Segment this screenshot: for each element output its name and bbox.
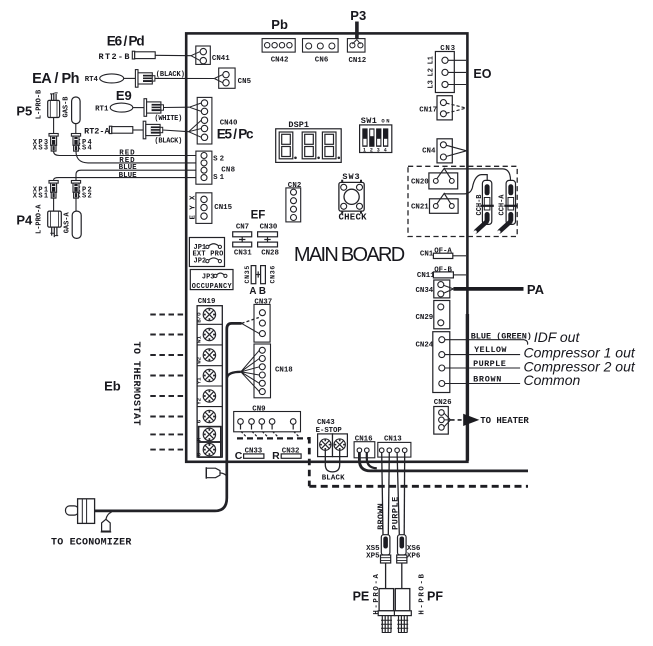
svg-text:PURPLE: PURPLE <box>473 359 506 369</box>
plug RT1 (WHITE) <box>144 99 182 123</box>
connector CN41 <box>191 46 230 64</box>
svg-text:XS3: XS3 <box>33 145 48 153</box>
main board outline <box>186 33 467 461</box>
wire RT2-A to plug <box>133 129 143 131</box>
wire trunk from CN37/CN18 down to economizer <box>95 318 259 511</box>
svg-text:P4: P4 <box>16 212 33 227</box>
svg-text:E9: E9 <box>116 88 132 103</box>
svg-text:CN11: CN11 <box>417 272 435 280</box>
pressure switch L-PRO-A <box>36 198 62 237</box>
svg-text:EA / Ph: EA / Ph <box>32 71 79 87</box>
svg-text:B/O: B/O <box>196 312 203 323</box>
svg-text:CN12: CN12 <box>349 57 367 65</box>
crankcase heater plug CCH-A <box>498 180 518 233</box>
pressure switch PE H-PRO-A <box>353 574 396 633</box>
svg-text:IDF out: IDF out <box>534 329 581 345</box>
plug XS6/XP6 <box>397 535 421 589</box>
wire RED 1 <box>54 149 197 157</box>
svg-text:C: C <box>235 450 243 462</box>
svg-text:CN29: CN29 <box>416 314 434 322</box>
svg-text:BLUE: BLUE <box>119 172 137 180</box>
jumper block JP3 OCCUPANCY <box>190 270 233 291</box>
svg-text:PA: PA <box>527 282 545 297</box>
svg-text:CN43: CN43 <box>317 419 335 427</box>
connector CN2 <box>286 182 301 222</box>
connector CN9 <box>234 405 301 432</box>
wire CN20 to CCH-A <box>444 168 510 180</box>
connector CN40 <box>189 97 238 144</box>
svg-text:PF: PF <box>427 589 443 603</box>
jumper R CN32 <box>272 448 301 463</box>
svg-text:CN6: CN6 <box>315 57 329 65</box>
wire RT4 to plug <box>124 77 136 79</box>
plug RT4 (BLACK) <box>135 70 185 88</box>
svg-text:CN4: CN4 <box>422 148 436 156</box>
svg-text:G: G <box>196 419 203 423</box>
pressure switch PF H-PRO-B <box>394 574 443 633</box>
wire RT2-B to CN41 <box>155 54 191 56</box>
svg-text:L-PRO-B: L-PRO-B <box>36 89 44 119</box>
dashed option box (crankcase heaters) <box>408 166 517 236</box>
wire PA thick <box>453 282 544 297</box>
svg-text:EF: EF <box>251 209 266 221</box>
plug XS5/XP5 <box>366 535 391 589</box>
svg-text:XP6: XP6 <box>407 553 421 561</box>
wires CN3 to board edge <box>448 60 466 84</box>
svg-text:BLACK: BLACK <box>322 474 345 482</box>
svg-text:CN35: CN35 <box>244 266 251 284</box>
svg-text:C: C <box>196 452 203 456</box>
svg-text:CN15: CN15 <box>214 204 232 212</box>
DIP switch SW1 <box>360 116 392 153</box>
label E9 <box>116 88 132 103</box>
spade terminal on trunk (board bottom) <box>206 467 227 479</box>
svg-text:CN28: CN28 <box>261 250 279 258</box>
svg-text:TO ECONOMIZER: TO ECONOMIZER <box>51 538 131 549</box>
crankcase heater plug CCH-B <box>474 180 494 233</box>
label E5 / Pc <box>217 127 254 142</box>
label Pb <box>271 17 288 32</box>
svg-text:CN20: CN20 <box>411 179 429 187</box>
wire P3 thick lead <box>355 22 359 41</box>
svg-text:L1: L1 <box>427 56 435 64</box>
wire Compressor 1 out YELLOW <box>445 345 636 361</box>
wire BLUE 2 <box>54 172 197 181</box>
label EF <box>251 209 266 221</box>
pressure switch L-PRO-B <box>36 89 60 134</box>
wire RT2-A plug to CN40 <box>163 130 189 132</box>
svg-text:A B: A B <box>249 286 266 297</box>
svg-text:BLUE (GREEN): BLUE (GREEN) <box>471 332 532 342</box>
svg-text:RT2-A: RT2-A <box>84 126 110 136</box>
thermistor RT4 <box>85 74 124 84</box>
connector CN42 <box>262 39 295 65</box>
push button SW3 CHECK <box>339 172 368 222</box>
dashed bus from CN9 to bottom right <box>237 437 528 486</box>
svg-text:EO: EO <box>473 67 491 81</box>
dashed wires to thermostat <box>150 315 186 450</box>
thermistor RT2-B <box>99 51 156 62</box>
svg-text:RT1: RT1 <box>95 105 109 113</box>
svg-text:RT2-B: RT2-B <box>99 52 130 62</box>
terminal block CN19 <box>197 298 222 457</box>
jumper CN30/CN28 <box>258 224 280 258</box>
connector CN13 <box>378 436 411 457</box>
svg-text:MAIN BOARD: MAIN BOARD <box>294 244 405 266</box>
plug XP3/XS3 <box>33 134 58 153</box>
svg-text:SW3: SW3 <box>342 172 359 182</box>
svg-text:W2: W2 <box>196 356 203 363</box>
wire RED 2 <box>76 151 197 165</box>
spade terminal on economizer wire <box>101 512 112 532</box>
svg-text:CN17: CN17 <box>419 107 437 115</box>
wire plug to CN5 <box>155 77 214 79</box>
svg-text:E6 / Pd: E6 / Pd <box>107 33 145 48</box>
label PURPLE vertical <box>391 497 401 530</box>
connector CN34 with PA lead <box>416 280 454 298</box>
svg-text:OCCUPANCY: OCCUPANCY <box>192 283 233 291</box>
label Eb <box>104 378 121 393</box>
svg-text:CN5: CN5 <box>238 78 252 86</box>
connector CN26 <box>434 399 452 434</box>
svg-text:CCH-A: CCH-A <box>498 194 506 216</box>
wire E-STOP loop BLACK <box>322 450 345 482</box>
wire CN21 to CCH-B <box>444 175 487 194</box>
svg-text:S1: S1 <box>213 174 225 182</box>
plug XP2/XS2 <box>71 181 91 201</box>
connector CN37 <box>254 298 272 342</box>
CN19 pin labels B/O W1 W2 Y1 Y2 G R C <box>196 312 203 456</box>
svg-text:BROWN: BROWN <box>473 374 501 384</box>
thermistor RT2-A <box>84 126 133 136</box>
svg-text:Eb: Eb <box>104 378 121 393</box>
wire fork CN18 <box>241 350 259 391</box>
svg-text:CN1: CN1 <box>420 250 434 258</box>
plug XP4/XS4 <box>71 134 91 153</box>
gas sensor GAS-B <box>63 96 81 134</box>
svg-text:XP5: XP5 <box>366 553 380 561</box>
svg-text:CN18: CN18 <box>275 367 293 375</box>
svg-text:CN24: CN24 <box>416 341 434 349</box>
connector CN3 with L1 L2 L3 <box>427 45 455 93</box>
label E6 / Pd <box>107 33 145 48</box>
jumper CN11 OF-B <box>417 267 466 281</box>
label EA / Ph <box>32 71 79 87</box>
connector CN12 <box>347 39 366 65</box>
svg-text:4: 4 <box>384 147 387 153</box>
wires PURPLE pair CN13 to XS6 <box>397 453 405 535</box>
connector CN17 <box>419 96 465 120</box>
CN9 pin stubs to dashed bus <box>241 424 299 436</box>
svg-text:JP2: JP2 <box>194 258 207 266</box>
svg-text:GAS-A: GAS-A <box>64 211 72 233</box>
plug RT2-A (BLACK) <box>143 121 182 145</box>
display DSP1 <box>276 120 342 162</box>
svg-text:3: 3 <box>377 147 380 153</box>
svg-text:CN36: CN36 <box>270 266 277 284</box>
svg-text:CN42: CN42 <box>271 57 289 65</box>
svg-text:R: R <box>196 437 203 441</box>
wire IDF out BLUE (GREEN) <box>445 329 581 345</box>
svg-text:YELLOW: YELLOW <box>474 345 507 355</box>
svg-text:CN31: CN31 <box>234 250 252 258</box>
svg-text:JP3: JP3 <box>202 274 215 282</box>
connector CN18 <box>254 344 293 398</box>
thick wire from CN16 to right <box>359 453 528 471</box>
svg-text:L2: L2 <box>427 68 435 76</box>
svg-text:PURPLE: PURPLE <box>391 497 401 530</box>
wire BLUE 1 <box>76 164 197 180</box>
connector CN20 <box>411 168 458 189</box>
economizer plug <box>66 499 95 524</box>
svg-text:CHECK: CHECK <box>339 213 368 223</box>
svg-text:CN41: CN41 <box>212 55 230 63</box>
connector CN29 <box>416 301 450 329</box>
label P5 <box>16 103 32 118</box>
jumper CN35/CN36 A B <box>244 266 276 297</box>
gas sensor GAS-A <box>64 198 82 238</box>
label MAIN BOARD <box>294 244 405 266</box>
label TO THERMOSTAT <box>130 342 141 426</box>
connector CN24 <box>416 332 450 393</box>
connector CN21 <box>411 193 458 213</box>
svg-text:Common: Common <box>524 372 581 388</box>
svg-text:R: R <box>272 450 280 462</box>
connector CN5 <box>214 68 251 88</box>
wire Compressor 2 out PURPLE <box>445 358 636 374</box>
svg-text:XS1: XS1 <box>33 192 48 200</box>
connector CN6 <box>303 39 339 65</box>
connector CN4 <box>422 139 466 163</box>
svg-text:CN30: CN30 <box>260 224 278 232</box>
svg-text:TO THERMOSTAT: TO THERMOSTAT <box>130 342 141 426</box>
label TO ECONOMIZER <box>51 538 131 549</box>
svg-text:GAS-B: GAS-B <box>63 96 71 118</box>
svg-text:L-PRO-A: L-PRO-A <box>36 204 44 234</box>
connector CN16 <box>354 436 375 458</box>
svg-text:P5: P5 <box>16 103 32 118</box>
svg-text:L3: L3 <box>427 80 435 88</box>
thermistor RT1 <box>95 103 133 113</box>
svg-text:Y1: Y1 <box>196 377 203 384</box>
svg-text:BROWN: BROWN <box>376 503 386 530</box>
svg-text:PE: PE <box>353 589 370 603</box>
jumper CN1 OF-A <box>420 247 466 258</box>
svg-text:(BLACK): (BLACK) <box>154 138 182 146</box>
jumper CN7/CN31 <box>233 224 253 258</box>
svg-text:(WHITE): (WHITE) <box>154 115 182 123</box>
wire TO HEATER with arrow <box>451 414 530 426</box>
wire Common BROWN <box>445 372 581 388</box>
svg-text:CN26: CN26 <box>434 399 452 407</box>
jumper C CN33 <box>235 448 264 463</box>
svg-text:(BLACK): (BLACK) <box>156 71 185 79</box>
label BROWN vertical <box>376 503 386 530</box>
svg-text:1: 1 <box>363 147 366 153</box>
svg-text:CN34: CN34 <box>416 287 434 295</box>
svg-text:ON: ON <box>381 118 389 125</box>
svg-text:2: 2 <box>370 147 373 153</box>
svg-text:W1: W1 <box>196 336 203 343</box>
svg-text:Y2: Y2 <box>196 397 203 404</box>
label P3 <box>350 8 366 23</box>
connector CN15 with X Y E marking <box>190 193 233 224</box>
svg-text:E5 / Pc: E5 / Pc <box>217 127 254 142</box>
svg-text:Pb: Pb <box>271 17 288 32</box>
svg-text:TO HEATER: TO HEATER <box>480 416 529 426</box>
svg-text:RT4: RT4 <box>85 76 99 84</box>
plug XP1/XS1 <box>33 181 58 201</box>
svg-text:CN7: CN7 <box>236 224 249 232</box>
label P4 <box>16 212 33 227</box>
wires BROWN pair CN13 to XS5 <box>382 453 390 535</box>
svg-text:CN19: CN19 <box>198 298 216 306</box>
wire RT1 to plug <box>133 107 144 109</box>
jumper block JP1/JP2 EXT PRO <box>189 238 224 267</box>
connector CN8 <box>196 151 236 184</box>
svg-text:CN21: CN21 <box>411 204 429 212</box>
wire RT1 plug to CN40 <box>164 106 190 108</box>
label EO <box>473 67 491 81</box>
emergency stop CN43 E-STOP <box>316 419 348 457</box>
svg-text:P3: P3 <box>350 8 366 23</box>
